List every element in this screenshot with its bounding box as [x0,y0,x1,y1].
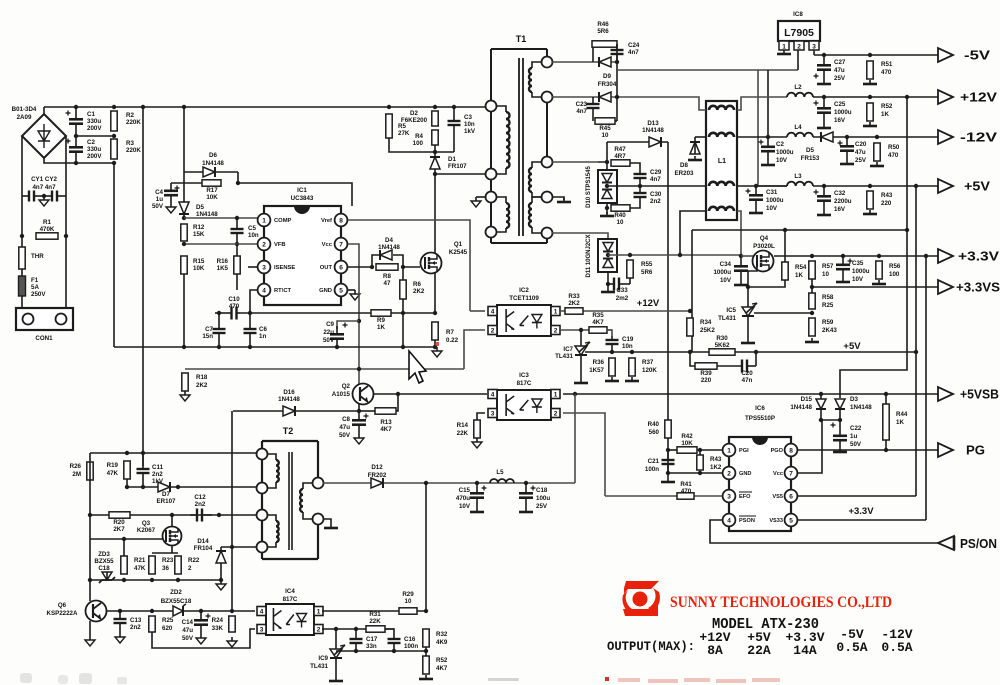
capacitor C32 [814,186,832,211]
svg-text:ISENSE: ISENSE [274,265,295,271]
svg-text:330u: 330u [87,146,101,153]
junctions -5V rail [822,53,872,57]
svg-text:BZX55: BZX55 [94,558,114,565]
junction C9 tap [357,319,361,323]
svg-text:C32: C32 [834,190,846,197]
IC6 pin 1 [723,444,736,457]
capacitor C20b label [855,141,867,164]
T2 winding 1 [276,460,279,482]
T1 left pin 197 [486,192,497,203]
svg-text:4K7: 4K7 [592,319,604,326]
transistor Q1 label [449,241,468,256]
capacitor C33 [608,278,630,291]
wire R45 right [615,120,617,122]
svg-text:R1: R1 [43,219,51,226]
svg-text:47: 47 [384,280,391,287]
T1 bottom edge [491,242,547,244]
opto-coupler IC2 TCET1109 [497,305,551,336]
capacitor C16 label [404,636,418,650]
junction R17 D6 [236,181,240,185]
wire source row [152,552,178,554]
svg-text:R29: R29 [402,591,414,598]
capacitor C7 label [202,326,213,340]
svg-text:C12: C12 [194,494,206,501]
svg-text:C24: C24 [628,42,640,49]
T1 aux stub top [491,197,506,203]
wire ZD3 stem [106,572,108,580]
resistor R41 [677,493,694,499]
svg-text:2n2: 2n2 [152,471,163,478]
junction mid bulk [74,134,116,138]
opto-coupler IC2 TCET1109 pin 2 [488,326,497,335]
resistor R54 label [795,264,807,279]
svg-text:10V: 10V [852,276,864,283]
resistor R57 label [822,263,834,278]
svg-text:P3020L: P3020L [753,243,775,250]
svg-text:C7: C7 [205,326,213,333]
capacitor C19 [606,336,619,352]
svg-text:FR304: FR304 [598,81,617,88]
capacitor C5 label [248,225,259,239]
svg-text:C31: C31 [766,189,778,196]
ground R51 [863,80,877,84]
resistor R45 [595,118,615,124]
svg-text:IC4: IC4 [285,588,295,595]
mouse cursor [409,351,426,383]
svg-text:4n7 4n7: 4n7 4n7 [32,184,56,191]
svg-text:+3.3VS: +3.3VS [956,281,1000,295]
transistor Q6 KSP2222A [86,601,107,622]
wire D16 row [233,410,359,412]
svg-text:47n: 47n [742,377,753,384]
capacitor C23 label [576,101,588,115]
svg-text:220: 220 [701,377,712,384]
diode D13 label [642,120,664,134]
transformer T2 body [262,441,318,559]
wire R57 bottom [811,279,813,293]
shunt regulator IC9 label [310,655,328,670]
transformer T2 label [283,426,294,436]
wire D14 stem [220,547,222,551]
svg-text:D5: D5 [806,147,814,154]
T1 sec1 stub bottom [532,92,547,97]
svg-text:FR153: FR153 [801,155,820,162]
capacitor C34 label [713,261,731,284]
diode D1 [430,157,440,169]
svg-text:10V: 10V [776,157,788,164]
svg-text:8: 8 [789,447,793,454]
svg-text:1000u: 1000u [852,268,870,275]
wire Q4 gate [748,267,757,339]
capacitor C11 [137,453,150,487]
regulator IC8 text [784,27,814,39]
svg-text:R55: R55 [641,261,653,268]
IC6 pin 7 [785,467,798,480]
svg-text:C33: C33 [616,287,628,294]
svg-text:8A: 8A [707,643,723,658]
ground IC9 [329,677,343,681]
resistor R12 [181,224,187,241]
resistor R52 label [881,103,893,118]
diode D12 [371,478,383,488]
connector +5VSB [938,387,953,401]
junctions row1 [125,451,145,455]
T2 left pin 547 [257,542,268,553]
zener ZD3 [99,572,115,583]
resistor R31 label [369,611,381,625]
svg-text:5K62: 5K62 [715,342,730,349]
svg-text:R15: R15 [193,258,205,265]
resistor R26 label [70,463,82,478]
op-amp U1 pin 3 [258,261,271,274]
resistor R58 [809,293,815,309]
svg-text:R31: R31 [369,611,381,618]
svg-text:6: 6 [339,264,343,271]
opto-coupler IC3 817C pin 4 [488,390,497,399]
svg-text:10V: 10V [766,205,778,212]
diode D5 [179,202,189,214]
capacitor C29 label [650,169,662,183]
svg-text:+5V: +5V [964,180,991,194]
svg-text:R9: R9 [377,317,385,324]
wire zd3 row [90,579,221,581]
svg-text:COMP: COMP [274,218,292,224]
resistor R8 [376,264,398,270]
capacitor C24 [611,44,624,62]
svg-text:50V: 50V [850,441,862,448]
output column +5V [747,630,771,658]
supervisor IC6 body [729,437,791,531]
svg-text:TCET1109: TCET1109 [509,295,539,302]
wire w2 right [737,136,768,138]
transistor Q4 label [753,235,775,250]
shunt regulator IC7 label [555,346,573,360]
wire D13 row [607,141,668,143]
wire D3 bottom [839,409,841,428]
T1 sec winding 1 [529,68,532,92]
rail -5V [814,54,938,56]
resistor R47 [611,160,630,166]
svg-text:CY1 CY2: CY1 CY2 [31,176,57,183]
transistor Q4 P3020L [753,251,774,272]
capacitor C24 label [628,42,640,56]
opto-coupler IC4 817C pin 2 [314,625,323,634]
resistor R40b label [648,421,660,436]
inductor L5 [490,479,514,483]
ground D11 [601,288,615,292]
svg-text:R30: R30 [716,335,728,342]
resistor R36 [609,358,615,376]
capacitor C2 label [87,139,102,160]
ground C35 [836,278,850,282]
svg-text:47u: 47u [339,424,350,431]
inductor L2 [787,93,813,97]
opto-coupler IC4 817C pin 1 [314,607,323,616]
transformer T1 label [516,34,527,44]
resistor R58 label [822,294,834,309]
transistor Q2 label [332,383,351,398]
svg-text:PS/ON: PS/ON [960,537,997,551]
svg-text:IC9: IC9 [318,655,328,662]
T1 sec3 stub bottom [532,227,547,233]
resistor R52b [423,656,429,674]
capacitor C10 [229,307,240,320]
capacitor C25 label [834,101,852,124]
svg-text:R46: R46 [597,21,609,28]
capacitor C2 [66,136,84,163]
resistor R47 label [614,146,626,160]
svg-text:FR107: FR107 [448,163,467,170]
wire R54 pullup row [692,229,907,231]
svg-text:R13: R13 [380,419,392,426]
svg-text:Q2: Q2 [342,383,351,390]
wire D13 right leg [667,142,669,420]
svg-text:OUTPUT(MAX):: OUTPUT(MAX): [607,639,695,654]
capacitor C12 label [194,494,206,508]
wire bridge bottom [44,158,114,163]
IC8 pin 1 box [779,41,789,50]
svg-text:470: 470 [888,152,899,159]
svg-text:1K: 1K [795,272,803,279]
T1 right pin 162 [542,157,553,168]
svg-text:1kV: 1kV [464,128,476,135]
resistor R14 [474,420,480,438]
junctions base row [118,609,234,613]
capacitor C7 [213,313,226,347]
resistor R12 label [193,224,205,238]
opto-coupler IC3 817C pin 3 [488,409,497,418]
junctions d15 d3 [819,418,842,422]
svg-text:1000u: 1000u [766,197,784,204]
junctions +5V rail [822,184,918,188]
resistor R18 [182,373,188,391]
svg-text:D13: D13 [647,120,659,127]
svg-text:Vcc: Vcc [773,471,783,477]
T2 right pin 483 [313,478,324,489]
resistor R52 [867,103,873,121]
svg-text:R41: R41 [680,481,692,488]
junction TL431 top [579,328,583,332]
svg-text:6: 6 [789,493,793,500]
svg-text:C6: C6 [259,326,267,333]
wire raw +5 row [607,185,706,187]
svg-text:C29: C29 [650,169,662,176]
wire pin5 vs33 [798,519,926,521]
svg-text:PG: PG [966,444,985,458]
svg-text:2K43: 2K43 [822,327,837,334]
op-amp U1 pin 7 [335,238,348,251]
svg-text:10: 10 [617,219,624,226]
svg-text:1N4148: 1N4148 [850,404,872,411]
diode D16 label [278,389,300,403]
svg-text:C17: C17 [366,636,378,643]
wire sec2 row [552,161,598,163]
T2 winding 2 [276,521,279,542]
inductor L2 label [794,84,802,91]
junction VFB [182,242,186,246]
diode D11b [603,259,613,268]
svg-text:R39: R39 [700,370,712,377]
svg-text:D9: D9 [603,73,611,80]
junction C34 node [739,254,743,258]
rail +3.3V [774,255,938,257]
capacitor CY1 [22,191,44,202]
resistor R43 label [881,192,893,207]
resistor R16 [234,256,240,274]
ground C8 [354,434,364,444]
wire w2 left [695,136,706,138]
resistor R59 [809,318,815,336]
junctions +5VSB rail [573,392,888,396]
svg-text:R59: R59 [822,319,834,326]
svg-text:100n: 100n [645,466,659,473]
svg-text:C30: C30 [650,191,662,198]
op-amp IC1 UC3843 body [264,206,341,305]
svg-text:BZX55C18: BZX55C18 [161,598,192,605]
junction D9a out [615,60,619,64]
output column -12V [881,627,912,655]
svg-text:D14: D14 [197,538,209,545]
wire R13 riser [396,394,398,411]
junction D10 bottom [605,206,609,210]
svg-text:120K: 120K [642,367,657,374]
rail +5VSB [563,393,938,395]
output column -5V [836,627,867,655]
T1 left rail [490,49,492,243]
IC6 pin 3 [723,490,736,503]
resistor R43b label [710,456,722,471]
connector +12V [938,90,953,104]
ground zd3 row [216,580,226,590]
resistor R2 [111,111,117,131]
wire R44 top [885,394,887,404]
svg-text:8: 8 [339,217,343,224]
svg-text:C3: C3 [464,114,472,121]
svg-text:16V: 16V [834,117,846,124]
wire ISENSE row b [240,312,435,314]
wire pin7 vcc [798,420,822,473]
IC6 pin names left [739,448,755,524]
svg-text:1N4148: 1N4148 [202,160,224,167]
svg-text:2: 2 [554,328,558,335]
resistor R18 label [196,374,208,389]
ground C13 [115,633,125,643]
opto-coupler IC3 817C [497,390,551,420]
svg-text:F1: F1 [31,277,39,284]
capacitor C18 label [536,487,550,510]
svg-text:1N4148: 1N4148 [790,404,812,411]
svg-text:C13: C13 [130,617,142,624]
diode D11 body [598,239,617,272]
capacitor C12 [190,509,212,522]
svg-text:PGO: PGO [771,448,784,454]
grey artifact 4 [117,677,127,684]
wire x758 drop [757,70,759,185]
svg-text:100: 100 [889,271,900,278]
T1 sec1 stub top [532,62,547,68]
zener ZD2 label [161,589,192,605]
T1 right top seg [546,49,548,58]
wire L7905 input riser [797,49,799,70]
capacitor C29 [634,169,647,186]
wire D1 to Q1 drain [434,169,436,313]
svg-text:0.22: 0.22 [446,337,459,344]
svg-text:2n2: 2n2 [130,624,141,631]
svg-text:3: 3 [727,493,731,500]
wire R54 riser [784,230,786,262]
+12V net label [637,298,660,309]
wire R15 to gnd bus [183,274,185,347]
resistor R20 [109,512,130,518]
wire bridge right leg [65,136,67,308]
svg-text:4R7: 4R7 [614,153,626,160]
svg-text:R34: R34 [700,319,712,326]
T1 sec3 stub top [532,197,547,203]
svg-text:2K7: 2K7 [113,526,125,533]
wire primary ground bus [114,346,437,348]
svg-text:2n2: 2n2 [195,501,206,508]
resistor R56 [876,261,882,279]
resistor R30 [709,349,735,355]
capacitor C21 label [645,458,660,473]
resistor R56 label [889,263,901,278]
svg-text:25V: 25V [855,157,867,164]
svg-text:7: 7 [789,470,793,477]
wire R47 right [630,163,640,169]
svg-text:2M: 2M [72,471,81,478]
wire +5V sense drop [915,186,917,496]
capacitor C9 label [323,321,335,344]
svg-text:D1: D1 [448,156,456,163]
svg-text:ER203: ER203 [675,170,694,177]
ground R52 [863,122,877,126]
wire R25 loop [152,629,255,648]
connector PG [938,443,953,457]
wire w4 left [680,211,706,255]
wire D16 dropper [231,411,233,611]
resistor R16 label [217,258,229,272]
resistor R2 label [126,112,141,126]
resistor R35 label [592,312,604,326]
capacitor C22 [831,423,848,449]
svg-text:1: 1 [317,609,321,616]
svg-text:100n: 100n [404,643,418,650]
svg-text:R35: R35 [592,312,604,319]
+3.3V net label [848,506,874,517]
ground IC1 pin5 [350,290,360,300]
resistor R50 [874,143,880,161]
svg-text:C25: C25 [834,101,846,108]
junctions -12V rail [845,135,879,139]
wire sec1 bot row [552,96,620,98]
ground C4 [166,203,176,213]
ground C22 [833,448,847,452]
wire sec3 row [552,233,608,239]
svg-text:3: 3 [262,264,266,271]
svg-text:PSON: PSON [739,518,755,524]
resistor R50 label [888,144,900,159]
ground T1 primary [471,197,481,207]
svg-text:R43: R43 [710,456,722,463]
svg-text:25V: 25V [834,75,846,82]
wire R18 row [185,368,464,370]
capacitor C18 [519,483,536,508]
wire pin3 stub [248,266,261,268]
resistor R43 [867,191,873,209]
svg-text:22u: 22u [323,329,334,336]
svg-text:R52: R52 [436,657,448,664]
svg-text:2: 2 [188,565,192,572]
